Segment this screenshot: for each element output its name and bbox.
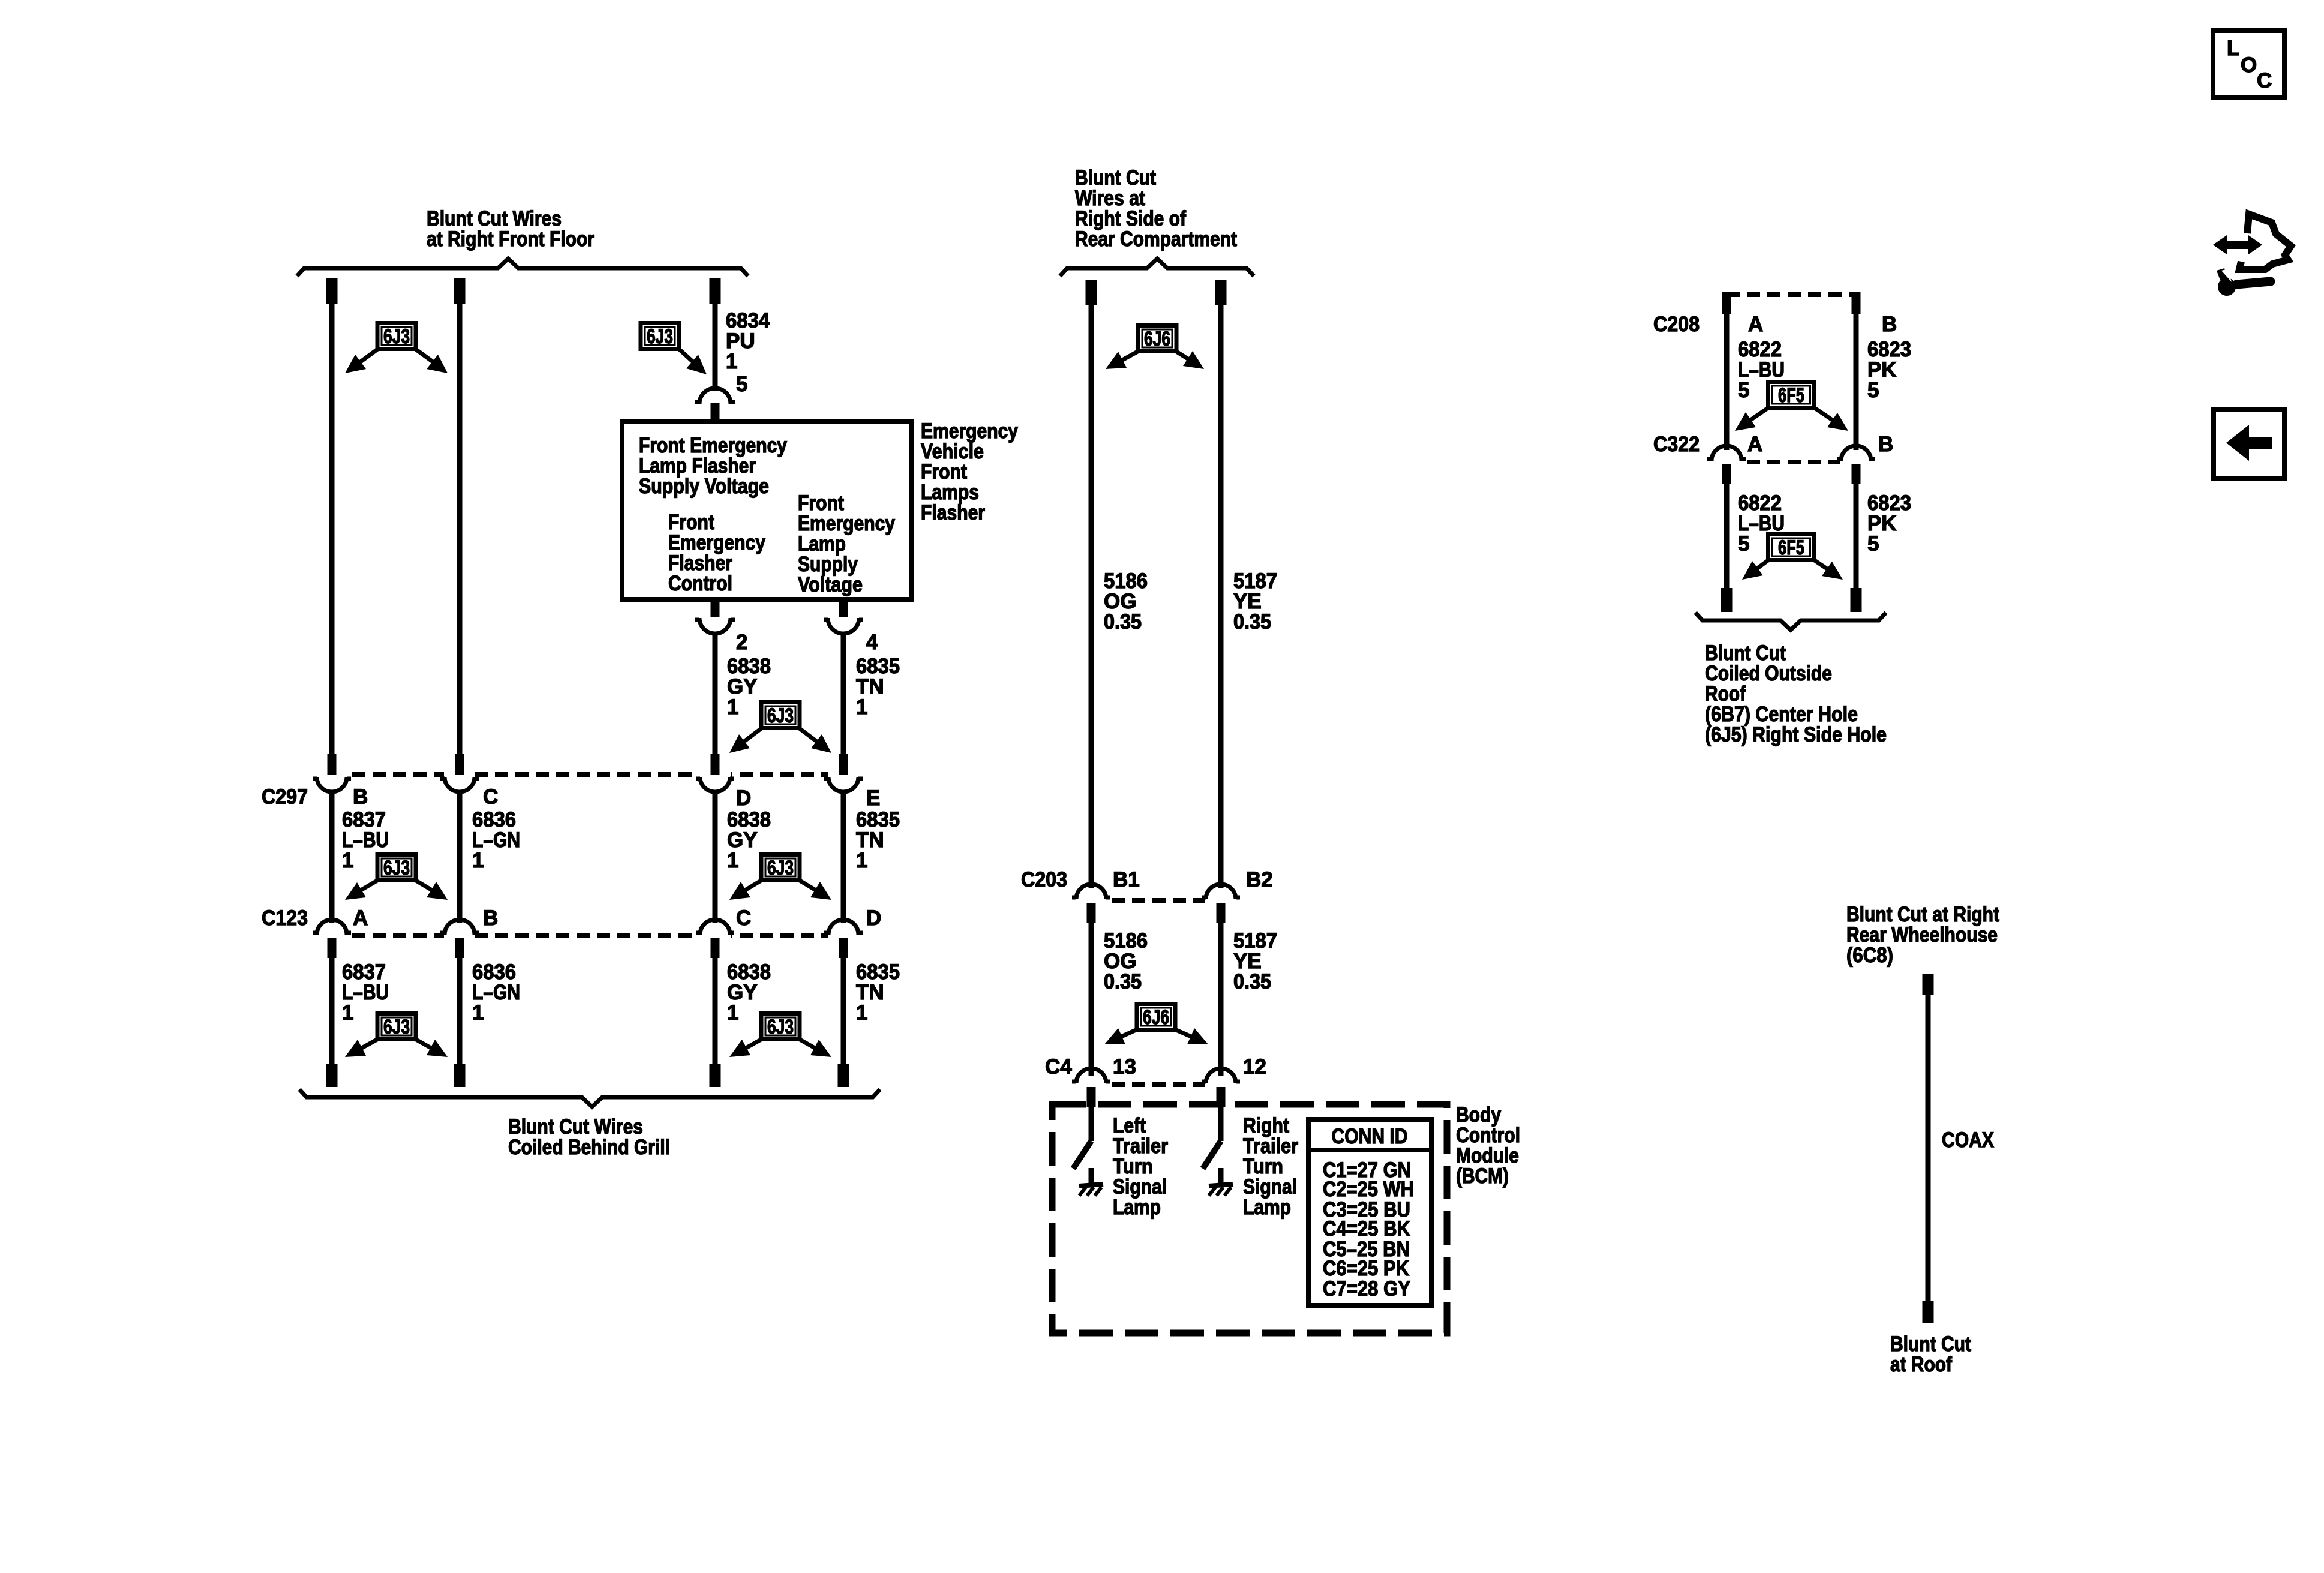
C322 cavity+terminal pin A bbox=[1707, 446, 1746, 484]
label: Body Control Module (BCM) bbox=[1456, 1103, 1520, 1188]
wire 5186 OG lower segment bbox=[1089, 923, 1094, 1076]
svg-text:1: 1 bbox=[856, 695, 867, 719]
blunt cut end: wire 6835 bottom bbox=[838, 1064, 849, 1087]
C297 terminal wire 6837 bbox=[313, 754, 351, 792]
C203 pin labels B1 B2 bbox=[1113, 868, 1273, 891]
wire 6836 L-GN lower segment bbox=[457, 958, 463, 1065]
blunt cut end: wire 5186 top bbox=[1086, 280, 1097, 305]
callout 6J3 harness pointer (C297-C123 left pair) bbox=[345, 855, 448, 900]
svg-text:C: C bbox=[483, 785, 498, 809]
blunt cut end: coax bottom bbox=[1923, 1301, 1934, 1323]
wire 6837 L-BU lower segment bbox=[329, 958, 335, 1065]
label: wire 5187 YE 0.35 (lower) bbox=[1233, 929, 1277, 993]
svg-text:(BCM): (BCM) bbox=[1456, 1164, 1509, 1188]
svg-text:Supply Voltage: Supply Voltage bbox=[639, 475, 769, 498]
svg-text:1: 1 bbox=[856, 1001, 867, 1025]
callout 6J3 harness pointer (lower left pair) bbox=[345, 1014, 448, 1058]
CONN ID table rows bbox=[1323, 1158, 1414, 1301]
wire 5187 YE lower segment bbox=[1218, 923, 1224, 1076]
svg-text:6J3: 6J3 bbox=[767, 857, 794, 879]
svg-text:0.35: 0.35 bbox=[1104, 970, 1142, 993]
svg-text:13: 13 bbox=[1113, 1055, 1136, 1079]
wire 6838 GY upper segment bbox=[713, 632, 718, 754]
switch: right trailer turn signal output bbox=[1203, 1107, 1224, 1169]
svg-text:Coiled Behind Grill: Coiled Behind Grill bbox=[508, 1136, 670, 1159]
label: wire 5186 OG 0.35 (lower) bbox=[1104, 929, 1148, 993]
label: C322 bbox=[1653, 433, 1700, 456]
module pin 4 terminal and cavity bbox=[824, 600, 863, 634]
label: Blunt Cut Coiled Outside Roof (6B7)/(6J5) bbox=[1705, 641, 1887, 746]
C322 cavity+terminal pin B bbox=[1837, 446, 1875, 484]
callout 6J6 harness pointer (lower) bbox=[1104, 1004, 1208, 1045]
svg-text:6F5: 6F5 bbox=[1778, 536, 1804, 559]
label: Front Emergency Lamp Flasher Supply Voltage bbox=[639, 434, 787, 498]
C203 cavity+terminal pin B1 bbox=[1072, 884, 1110, 923]
svg-text:Flasher: Flasher bbox=[921, 501, 985, 524]
svg-text:Voltage: Voltage bbox=[798, 573, 863, 596]
svg-text:C: C bbox=[2257, 69, 2272, 92]
label: C297 bbox=[262, 785, 308, 809]
module box: Front Emergency Lamp Flasher bbox=[622, 421, 912, 599]
C203 cavity+terminal pin B2 bbox=[1202, 884, 1240, 923]
svg-text:1: 1 bbox=[727, 695, 738, 719]
ground symbol (right trailer lamp) bbox=[1209, 1168, 1233, 1196]
svg-text:C297: C297 bbox=[262, 785, 308, 809]
ground symbol (left trailer lamp) bbox=[1079, 1168, 1103, 1196]
label: wire 6837 L-BU 1 (lower) bbox=[342, 960, 389, 1025]
svg-text:0.35: 0.35 bbox=[1233, 610, 1271, 634]
label: pin function Front Emergency Lamp Supply Voltage bbox=[798, 491, 895, 596]
blunt cut end: wire 6838 bottom bbox=[710, 1064, 721, 1087]
svg-text:D: D bbox=[866, 906, 881, 930]
svg-text:L: L bbox=[2227, 37, 2239, 60]
label: wire 6835 TN 1 (upper) bbox=[856, 655, 900, 719]
blunt cut end: wire 6837 top bbox=[326, 278, 338, 304]
C123 cavity+terminal wire 6838 bbox=[696, 920, 734, 958]
svg-text:5: 5 bbox=[736, 373, 747, 396]
label: CONN ID header bbox=[1332, 1125, 1408, 1148]
callout 6F5 harness pointer (lower) bbox=[1742, 535, 1843, 580]
svg-text:COAX: COAX bbox=[1942, 1128, 1995, 1152]
label: wire 6838 GY 1 (mid) bbox=[727, 808, 771, 872]
svg-text:D: D bbox=[736, 786, 751, 810]
svg-text:6J3: 6J3 bbox=[383, 1016, 410, 1038]
C123 cavity+terminal wire 6836 bbox=[440, 920, 479, 958]
svg-text:5: 5 bbox=[1867, 532, 1879, 556]
brace: blunt cut coiled outside roof bbox=[1695, 613, 1886, 630]
wire 6836 L-GN mid segment bbox=[457, 791, 463, 923]
wire 6838 GY mid segment bbox=[713, 791, 718, 923]
icon: body repair pictograph (double arrow, panel, wrench) bbox=[2213, 214, 2291, 296]
label: Blunt Cut at Right Rear Wheelhouse (6C8) bbox=[1846, 903, 1999, 967]
label: pin function Front Emergency Flasher Control bbox=[668, 511, 765, 595]
label: wire 5187 YE 0.35 (upper) bbox=[1233, 569, 1277, 634]
blunt cut end: wire 6834 top bbox=[710, 278, 721, 304]
svg-text:5: 5 bbox=[1738, 379, 1749, 402]
wire 6822 L-BU upper segment bbox=[1724, 313, 1730, 450]
svg-text:6F5: 6F5 bbox=[1778, 384, 1804, 407]
svg-text:(6C8): (6C8) bbox=[1846, 944, 1893, 967]
wire 6837 L-BU mid segment bbox=[329, 791, 335, 923]
svg-text:6J3: 6J3 bbox=[767, 1016, 794, 1038]
svg-text:1: 1 bbox=[472, 849, 484, 872]
callout 6J6 harness pointer (top) bbox=[1106, 326, 1204, 370]
svg-text:Rear Compartment: Rear Compartment bbox=[1075, 227, 1237, 251]
svg-text:B: B bbox=[1878, 433, 1893, 456]
pin 2 label bbox=[736, 631, 747, 654]
label: wire 5186 OG 0.35 (upper) bbox=[1104, 569, 1148, 634]
callout 6F5 harness pointer (upper) bbox=[1735, 382, 1848, 431]
label: wire 6837 L-BU 1 (mid) bbox=[342, 808, 389, 872]
label: COAX bbox=[1942, 1128, 1995, 1152]
pin 4 label bbox=[866, 631, 878, 654]
C297 terminal wire 6838 bbox=[696, 754, 734, 792]
svg-text:B: B bbox=[483, 906, 498, 930]
label: wire 6823 PK 5 (lower) bbox=[1867, 491, 1911, 556]
label: Blunt Cut Wires at Right Side of Rear Compartment bbox=[1075, 166, 1237, 251]
svg-text:at Roof: at Roof bbox=[1890, 1353, 1952, 1376]
svg-text:C322: C322 bbox=[1653, 433, 1700, 456]
svg-text:(6J5) Right Side Hole: (6J5) Right Side Hole bbox=[1705, 723, 1887, 746]
brace: rear compartment group bbox=[1060, 259, 1254, 276]
brace: right front floor group bbox=[297, 259, 748, 276]
label: Blunt Cut Wires Coiled Behind Grill bbox=[508, 1115, 670, 1159]
svg-text:B: B bbox=[353, 785, 368, 809]
callout 6J3 harness pointer (top pair) bbox=[345, 323, 448, 374]
blunt cut end: wire 6837 bottom bbox=[326, 1064, 338, 1087]
wire 5187 YE upper segment bbox=[1218, 304, 1224, 888]
blunt cut end: wire 6822 bottom bbox=[1721, 588, 1733, 612]
svg-text:C203: C203 bbox=[1021, 868, 1067, 891]
label: wire 6823 PK 5 (upper) bbox=[1867, 338, 1911, 402]
C208 pin letters A B bbox=[1748, 313, 1897, 336]
blunt cut end: wire 5187 top bbox=[1215, 280, 1227, 305]
svg-text:2: 2 bbox=[736, 631, 747, 654]
svg-text:B1: B1 bbox=[1113, 868, 1140, 891]
svg-text:O: O bbox=[2241, 53, 2257, 77]
blunt cut end: coax top bbox=[1923, 974, 1934, 995]
connector C123 dashed interface bbox=[316, 932, 859, 939]
C123 cavity+terminal wire 6835 bbox=[824, 920, 863, 958]
wire 6835 TN lower segment bbox=[841, 958, 846, 1065]
svg-text:1: 1 bbox=[726, 350, 737, 373]
connector C297 dashed interface bbox=[316, 771, 859, 778]
label: wire 6822 L-BU 5 (upper) bbox=[1738, 338, 1785, 402]
C4 cavity+terminal pin 12 bbox=[1202, 1068, 1240, 1107]
label: wire 6838 GY 1 (lower) bbox=[727, 960, 771, 1025]
svg-text:C208: C208 bbox=[1653, 313, 1700, 336]
svg-text:12: 12 bbox=[1243, 1055, 1266, 1079]
label: wire 6838 GY 1 (upper) bbox=[727, 655, 771, 719]
svg-text:at Right Front Floor: at Right Front Floor bbox=[427, 227, 594, 251]
svg-text:6J3: 6J3 bbox=[383, 857, 410, 879]
svg-text:1: 1 bbox=[856, 849, 867, 872]
svg-text:C123: C123 bbox=[262, 906, 308, 930]
svg-text:C7=28 GY: C7=28 GY bbox=[1323, 1277, 1410, 1301]
svg-text:E: E bbox=[866, 786, 880, 810]
svg-text:4: 4 bbox=[866, 631, 878, 654]
wire 6835 TN mid segment bbox=[841, 791, 846, 923]
wire 6836 L-GN upper segment bbox=[457, 303, 463, 754]
icon: back arrow box bbox=[2214, 409, 2284, 478]
label: Emergency Vehicle Front Lamps Flasher bbox=[921, 419, 1018, 524]
C208 terminal pin B bbox=[1852, 292, 1861, 314]
connector C322 dashed interface bbox=[1711, 458, 1872, 466]
callout 6J3 harness pointer (pins 2-4 band) bbox=[729, 703, 831, 754]
svg-text:A: A bbox=[1747, 433, 1762, 456]
svg-text:1: 1 bbox=[727, 1001, 738, 1025]
blunt cut end: wire 6823 bottom bbox=[1851, 588, 1862, 612]
connector C208 dashed interface bbox=[1727, 292, 1856, 297]
C123 pin letters A B C D bbox=[353, 906, 881, 930]
svg-text:5: 5 bbox=[1867, 379, 1879, 402]
svg-text:CONN ID: CONN ID bbox=[1332, 1125, 1408, 1148]
connector cavity at module pin 5 bbox=[695, 388, 735, 421]
svg-text:1: 1 bbox=[342, 1001, 353, 1025]
C297 terminal wire 6835 bbox=[824, 754, 863, 792]
C4 pin labels 13 12 bbox=[1113, 1055, 1266, 1079]
C297 pin letters B C D E bbox=[353, 785, 880, 810]
C297 terminal wire 6836 bbox=[440, 754, 479, 792]
svg-text:1: 1 bbox=[472, 1001, 484, 1025]
svg-text:5: 5 bbox=[1738, 532, 1749, 556]
svg-text:6J6: 6J6 bbox=[1143, 1006, 1169, 1029]
callout 6J3 harness pointer (wire 6834) bbox=[641, 323, 707, 375]
wire 6822 L-BU lower segment bbox=[1724, 484, 1730, 589]
blunt cut end: wire 6836 bottom bbox=[454, 1064, 466, 1087]
label: C203 bbox=[1021, 868, 1067, 891]
connector C4 dashed interface bbox=[1076, 1081, 1236, 1088]
svg-text:0.35: 0.35 bbox=[1104, 610, 1142, 634]
C322 pin letters A B bbox=[1747, 433, 1893, 456]
coax cable wire bbox=[1926, 995, 1931, 1301]
wire 6823 PK upper segment bbox=[1854, 313, 1859, 450]
connector C203 dashed interface bbox=[1076, 897, 1236, 904]
callout 6J3 harness pointer (lower right pair) bbox=[729, 1014, 831, 1058]
label: C4 bbox=[1045, 1055, 1072, 1079]
module pin 2 terminal and cavity bbox=[695, 600, 735, 634]
wire 6838 GY lower segment bbox=[713, 958, 718, 1065]
svg-text:B: B bbox=[1882, 313, 1897, 336]
wire 6823 PK lower segment bbox=[1854, 484, 1859, 589]
label: wire 6835 TN 1 (mid) bbox=[856, 808, 900, 872]
label: Blunt Cut at Roof bbox=[1890, 1332, 1971, 1376]
CONN ID table box bbox=[1308, 1119, 1431, 1305]
label: wire 6836 L-GN 1 (lower) bbox=[472, 960, 520, 1025]
callout 6J3 harness pointer (C297-C123 right pair) bbox=[729, 855, 831, 900]
svg-text:6J3: 6J3 bbox=[767, 704, 794, 727]
label: Blunt Cut Wires at Right Front Floor bbox=[427, 207, 594, 251]
wire 5186 OG upper segment bbox=[1089, 304, 1094, 888]
svg-text:Control: Control bbox=[668, 572, 732, 595]
label: wire 6836 L-GN 1 (mid) bbox=[472, 808, 520, 872]
svg-text:6J3: 6J3 bbox=[647, 325, 673, 348]
label: Right Trailer Turn Signal Lamp bbox=[1243, 1114, 1298, 1219]
wire into right trailer switch bbox=[1218, 1107, 1224, 1115]
label: Left Trailer Turn Signal Lamp bbox=[1113, 1114, 1168, 1219]
C208 terminal pin A bbox=[1722, 292, 1731, 314]
pin 5 label bbox=[736, 373, 747, 396]
svg-text:1: 1 bbox=[727, 849, 738, 872]
svg-text:Lamp: Lamp bbox=[1243, 1196, 1291, 1219]
blunt cut end: wire 6836 top bbox=[454, 278, 466, 304]
wire 6834 PU segment bbox=[713, 303, 718, 391]
C4 cavity+terminal pin 13 bbox=[1072, 1068, 1110, 1107]
label: C123 bbox=[262, 906, 308, 930]
svg-text:Lamp: Lamp bbox=[1113, 1196, 1161, 1219]
switch: left trailer turn signal output bbox=[1073, 1107, 1094, 1169]
svg-text:1: 1 bbox=[342, 849, 353, 872]
label: C208 bbox=[1653, 313, 1700, 336]
label: wire 6822 L-BU 5 (lower) bbox=[1738, 491, 1785, 556]
svg-text:C4: C4 bbox=[1045, 1055, 1072, 1079]
svg-text:0.35: 0.35 bbox=[1233, 970, 1271, 993]
BCM dashed outline box bbox=[1052, 1104, 1447, 1333]
svg-text:B2: B2 bbox=[1246, 868, 1273, 891]
svg-text:6J6: 6J6 bbox=[1144, 328, 1170, 350]
label: wire 6834 PU 1 bbox=[726, 309, 770, 373]
label: wire 6835 TN 1 (lower) bbox=[856, 960, 900, 1025]
wire 6835 TN upper segment bbox=[841, 632, 846, 754]
C123 cavity+terminal wire 6837 bbox=[313, 920, 351, 958]
svg-text:A: A bbox=[1748, 313, 1763, 336]
svg-text:6J3: 6J3 bbox=[383, 325, 410, 348]
wire into left trailer switch bbox=[1089, 1107, 1094, 1115]
svg-text:C: C bbox=[736, 906, 751, 930]
icon: LOC box bbox=[2213, 31, 2284, 97]
brace: blunt cut wires coiled behind grill bbox=[299, 1089, 880, 1107]
wire 6837 L-BU upper segment bbox=[329, 303, 335, 754]
svg-text:A: A bbox=[353, 906, 368, 930]
